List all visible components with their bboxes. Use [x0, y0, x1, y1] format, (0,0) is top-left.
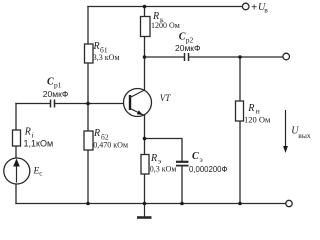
svg-text:R: R: [247, 103, 254, 114]
svg-text:0,3 кОм: 0,3 кОм: [150, 165, 177, 174]
label Rб2 value: [93, 128, 128, 149]
resistor Rн: [236, 101, 244, 121]
wire Rб2 top lead: [87, 104, 89, 132]
wire collector vertical: [144, 37, 146, 91]
wire Ri to Ec lead: [15, 146, 17, 159]
node junction Rб2 bottom: [86, 202, 90, 206]
wire Rк top lead: [144, 7, 146, 17]
capacitor Cр2: [185, 53, 189, 61]
node junction base: [86, 102, 90, 106]
label Rб1 value: [93, 41, 120, 62]
arrow Uвых: [283, 110, 288, 153]
svg-text:C: C: [179, 32, 186, 43]
svg-text:R: R: [93, 128, 100, 139]
wire Cэ bottom lead: [181, 167, 183, 204]
svg-text:C: C: [47, 77, 54, 88]
wire Ec bottom lead: [15, 184, 17, 204]
ground: [137, 204, 152, 218]
wire Cр2 right segment: [189, 56, 283, 58]
svg-text:R: R: [150, 153, 157, 164]
svg-text:1200 Ом: 1200 Ом: [151, 21, 180, 30]
wire Rн top lead: [239, 57, 241, 101]
terminal output bottom: [286, 200, 292, 206]
label Cр2 value: [175, 32, 200, 54]
label Ri value: [24, 127, 54, 149]
wire bottom rail: [16, 203, 286, 205]
resistor Rб2: [84, 131, 93, 150]
resistor Ri: [13, 130, 21, 146]
label +Uв: [251, 2, 268, 15]
wire input right segment to base: [55, 103, 130, 105]
svg-text:+: +: [251, 2, 257, 14]
svg-text:R: R: [93, 41, 100, 52]
wire emitter to Cэ: [145, 139, 183, 162]
node junction Cэ bottom: [180, 202, 184, 206]
node junction emitter: [143, 137, 147, 141]
wire Ri top lead: [15, 104, 17, 131]
wire input left segment: [16, 103, 50, 105]
capacitor Cр1: [51, 100, 55, 108]
wire top supply rail: [88, 6, 243, 8]
svg-text:3,3 кОм: 3,3 кОм: [93, 53, 120, 62]
terminal +Uв: [242, 3, 249, 10]
label Rк value: [151, 11, 180, 30]
capacitor Cэ: [176, 162, 189, 166]
label Rн value: [244, 103, 271, 125]
source Ec: [4, 158, 30, 184]
wire Rб1 bottom lead: [87, 63, 89, 104]
terminal output top: [283, 53, 290, 60]
svg-text:120 Ом: 120 Ом: [244, 115, 271, 125]
wire Rэ bottom lead: [144, 174, 146, 204]
resistor Rэ: [141, 155, 149, 175]
svg-text:1,1кОм: 1,1кОм: [24, 139, 54, 149]
svg-text:20мкФ: 20мкФ: [175, 43, 200, 53]
node junction Rн bottom: [238, 202, 242, 206]
wire emitter vertical: [144, 116, 146, 155]
resistor R1 Rк: [141, 17, 151, 37]
svg-text:0,000200Ф: 0,000200Ф: [189, 165, 228, 174]
label Cэ value: [189, 151, 228, 174]
label Uвых: [291, 126, 311, 140]
svg-text:с: с: [39, 170, 42, 178]
node junction collector Cр2: [143, 55, 147, 59]
wire Rн bottom lead: [239, 121, 241, 204]
svg-text:э: э: [200, 155, 203, 164]
svg-text:0,470 кОм: 0,470 кОм: [93, 140, 128, 149]
node junction top Rк: [143, 5, 147, 9]
node junction Rн top: [238, 55, 242, 59]
svg-text:VT: VT: [160, 93, 171, 103]
svg-text:20мкФ: 20мкФ: [43, 89, 68, 99]
svg-text:вых: вых: [298, 131, 311, 140]
label Cр1 value: [43, 77, 68, 100]
wire Cр2 left segment: [145, 56, 185, 58]
svg-text:R: R: [24, 127, 31, 138]
wire Rб1 top lead: [87, 7, 89, 45]
svg-text:в: в: [264, 6, 268, 15]
node junction ground: [143, 202, 147, 206]
label Rэ value: [150, 153, 177, 174]
svg-text:C: C: [192, 151, 199, 162]
resistor Rб1: [85, 44, 94, 63]
label Ec: [33, 166, 43, 177]
wire Rб2 bottom lead: [87, 150, 89, 204]
transistor VT: [124, 89, 152, 117]
